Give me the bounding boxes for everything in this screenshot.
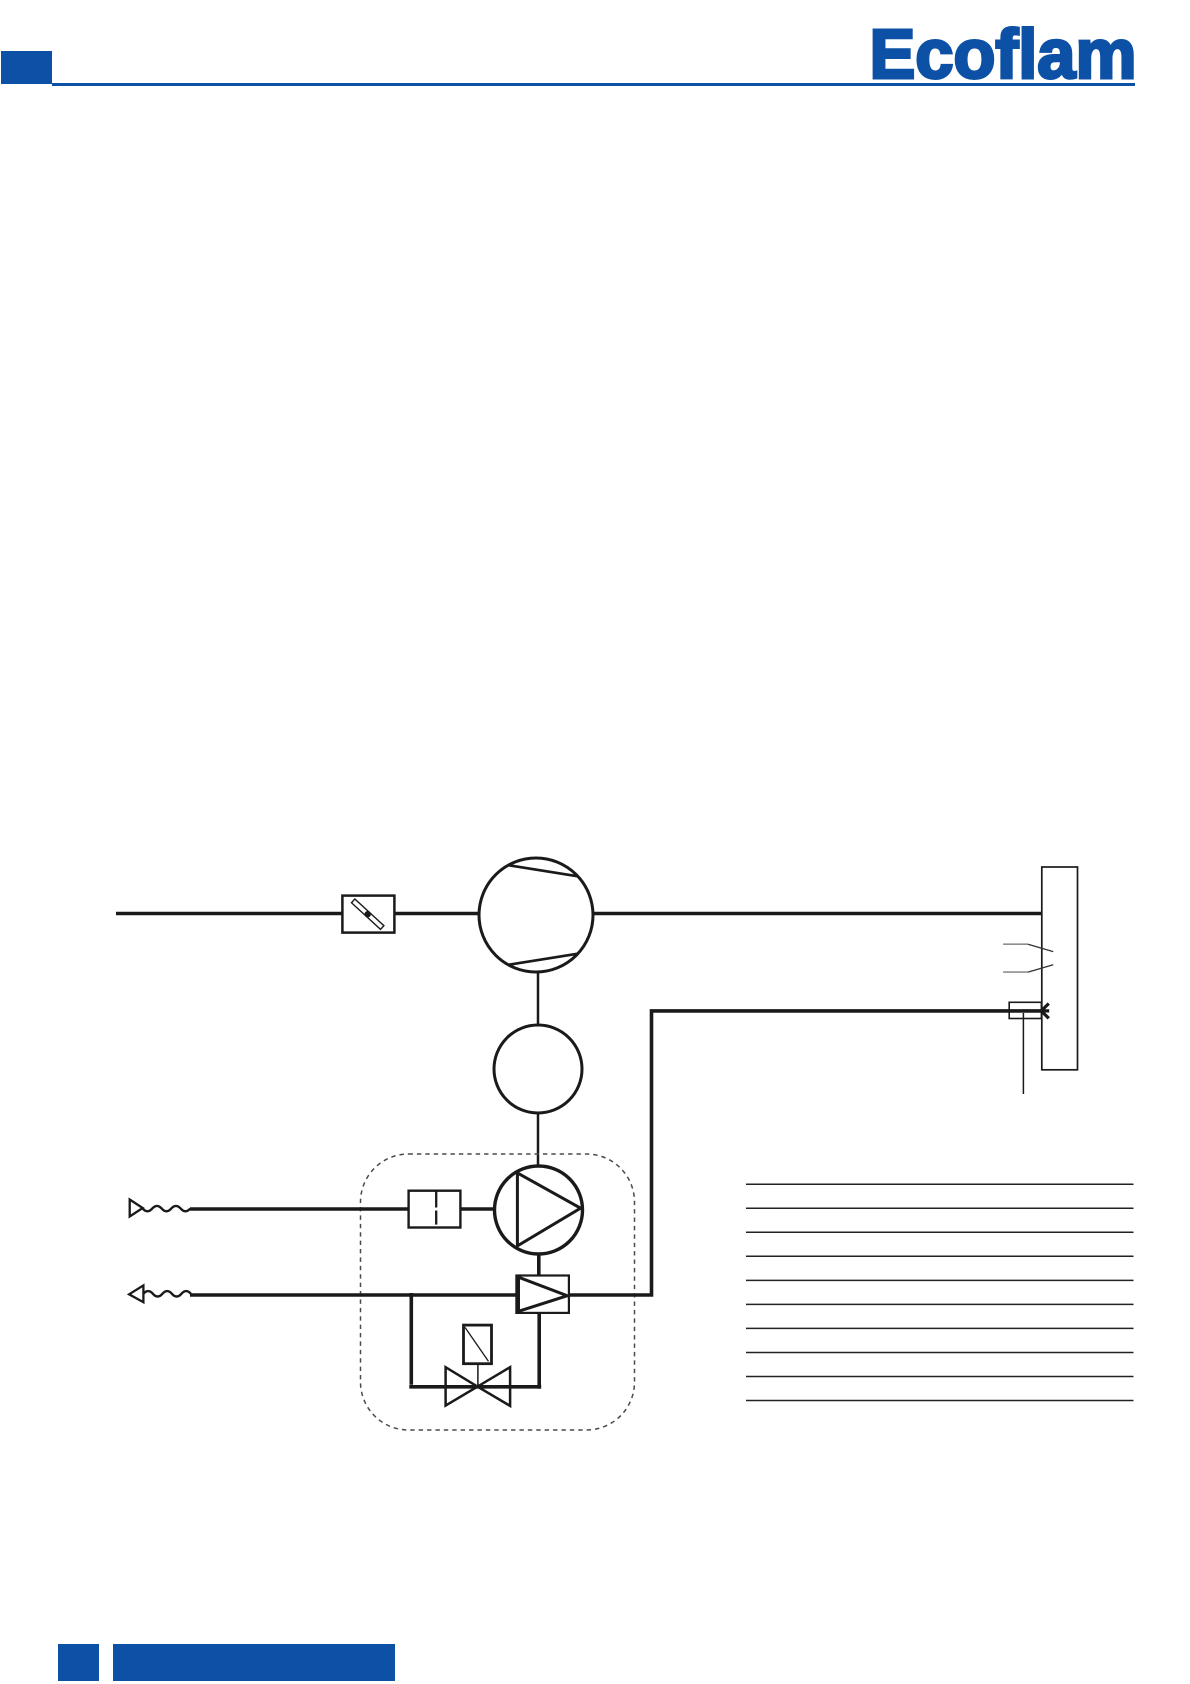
svg-text:Ecoflam: Ecoflam [870, 15, 1137, 93]
